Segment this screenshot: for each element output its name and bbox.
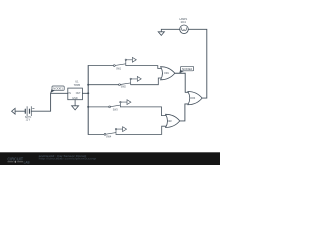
switch SW2	[119, 77, 142, 89]
wire lamp left to ground flag	[161, 29, 180, 32]
wire 5V bus	[87, 66, 89, 135]
CircuitLab logo	[7, 157, 30, 165]
junction	[87, 106, 89, 108]
wire row1 to OR1 top input	[126, 66, 164, 69]
wire row3 from bus	[88, 106, 109, 108]
switch SW4	[104, 127, 126, 139]
junction	[87, 92, 89, 94]
node NODE1 flag	[50, 86, 64, 93]
wire row2 to OR1 bottom input	[131, 78, 164, 85]
battery BATT1	[25, 107, 34, 116]
ground flag at lamp return	[158, 32, 164, 36]
wire OR3 output up right edge to lamp	[188, 29, 207, 98]
switch SW1	[113, 57, 136, 70]
svg-text:OR2: OR2	[167, 119, 172, 123]
svg-text:OUT: OUT	[76, 92, 81, 95]
wire row4 to OR2 bottom input	[116, 126, 168, 134]
ground flag at battery negative	[12, 108, 16, 114]
wire regulator OUT to 5V bus	[82, 92, 88, 94]
switch SW3	[109, 100, 131, 112]
svg-text:SW4: SW4	[106, 135, 112, 138]
svg-text:LAB: LAB	[24, 160, 30, 164]
svg-text:12 V: 12 V	[26, 117, 31, 121]
svg-text:SW3: SW3	[113, 109, 118, 112]
or-gate OR2	[166, 114, 180, 127]
wire row4 from bus	[88, 133, 104, 135]
svg-text:IN: IN	[69, 92, 72, 95]
wire row1 from bus	[88, 65, 113, 67]
ground flag under U1	[72, 106, 79, 110]
wire regulator GND stem	[74, 100, 76, 106]
footer bar	[0, 152, 220, 165]
or-gate OR1	[161, 67, 175, 80]
svg-text:NODE2: NODE2	[182, 67, 193, 71]
svg-text:NODE1: NODE1	[53, 87, 63, 91]
wire row2 from bus	[88, 84, 118, 86]
wire OR1 output to NODE2 net	[175, 73, 190, 92]
svg-text:SW1: SW1	[116, 68, 121, 71]
svg-text:OR1: OR1	[164, 71, 169, 75]
svg-text:100 Ω: 100 Ω	[181, 20, 187, 24]
lamp LAMP1	[179, 17, 188, 34]
voltage regulator U1 7805	[68, 81, 83, 101]
svg-text:SW2: SW2	[121, 85, 127, 88]
junction	[87, 84, 89, 86]
node NODE2 flag	[179, 66, 193, 73]
svg-text:OR3: OR3	[190, 96, 195, 100]
svg-text:7805: 7805	[74, 84, 81, 87]
wire battery to regulator input	[31, 93, 68, 111]
wire	[15, 110, 25, 112]
wire row3 to OR2 top input	[120, 107, 168, 116]
svg-text:http://circuitlab.com/c/phxe5u: http://circuitlab.com/c/phxe5uuvqr	[39, 157, 97, 161]
wire OR2 output to OR3 bottom input	[180, 104, 190, 121]
or-gate OR3	[188, 92, 202, 105]
